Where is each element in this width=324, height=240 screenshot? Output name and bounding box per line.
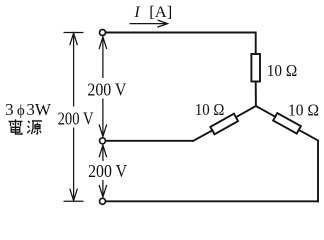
dimension tick top (long 200V arrow) xyxy=(64,32,84,34)
long dimension arrowhead down xyxy=(70,189,78,201)
svg-text:200 V: 200 V xyxy=(58,108,94,128)
kanji DEN (electricity), hand drawn xyxy=(9,119,23,134)
svg-text:200 V: 200 V xyxy=(87,79,126,99)
long dimension arrow shaft lower xyxy=(73,128,75,201)
svg-text:I: I xyxy=(133,4,140,21)
dim arrow A arrowhead down xyxy=(99,125,107,137)
wire middle line from source terminal to left leg corner xyxy=(106,140,193,142)
wire top line from source terminal to right corner xyxy=(106,33,256,55)
svg-text:200 V: 200 V xyxy=(88,161,127,181)
svg-text:10 Ω: 10 Ω xyxy=(288,101,319,120)
current arrow I shaft xyxy=(130,23,168,25)
dim arrow A shaft lower xyxy=(102,99,104,137)
svg-text:[A]: [A] xyxy=(149,4,172,21)
terminal circle top phase xyxy=(100,30,106,36)
dim arrow B arrowhead down xyxy=(99,185,107,197)
svg-text:10 Ω: 10 Ω xyxy=(195,100,225,119)
svg-text:3ϕ3W: 3ϕ3W xyxy=(5,100,52,119)
kanji GEN (source), hand drawn xyxy=(27,121,42,134)
svg-text:10 Ω: 10 Ω xyxy=(267,61,298,80)
dim arrow B shaft lower xyxy=(102,180,104,197)
resistor R3 (right diagonal) xyxy=(273,113,301,134)
wire R1 bottom to neutral node xyxy=(255,82,257,107)
wire left leg upper (node to resistor) xyxy=(236,106,256,117)
long dimension arrowhead up xyxy=(70,33,78,45)
resistor R2 (left diagonal) xyxy=(210,114,238,135)
dimension tick bottom (long 200V arrow) xyxy=(64,200,84,202)
wire bottom line from source terminal to right vertical xyxy=(106,200,318,202)
terminal circle middle phase xyxy=(100,138,106,144)
dim arrow A shaft upper (top to middle phase) xyxy=(102,37,104,78)
wire right leg upper (node to resistor) xyxy=(256,106,275,117)
long dimension arrow shaft upper xyxy=(73,33,75,106)
resistor R1 (top, vertical) xyxy=(251,54,260,82)
wire left leg lower (resistor to middle-wire corner) xyxy=(193,130,213,141)
current arrowhead right xyxy=(158,20,168,27)
dim arrow B arrowhead up xyxy=(99,145,107,157)
wire right leg lower (resistor to right corner) xyxy=(299,130,318,141)
dim arrow B shaft upper (middle to bottom phase) xyxy=(102,145,104,161)
wire right vertical down to bottom line xyxy=(317,141,319,202)
terminal circle bottom phase xyxy=(100,198,106,204)
dim arrow A arrowhead up xyxy=(99,37,107,49)
